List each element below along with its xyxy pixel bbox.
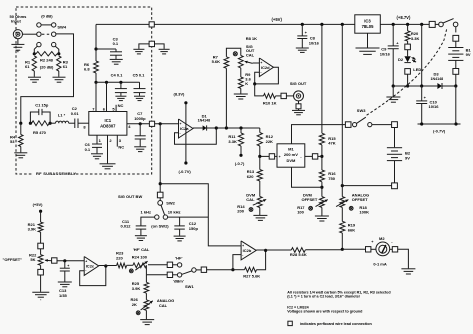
svg-text:C4 0.1: C4 0.1 [111, 72, 124, 77]
wire meter to ground [390, 247, 409, 269]
resistor R15 47K [319, 133, 336, 145]
svg-text:SIG OUT BW: SIG OUT BW [118, 194, 142, 199]
ground below meter return [401, 268, 415, 270]
svg-text:IC2b: IC2b [243, 248, 252, 253]
svg-text:(20 dB): (20 dB) [40, 65, 54, 70]
svg-text:1000p: 1000p [134, 116, 146, 121]
svg-text:10/16: 10/16 [309, 40, 320, 45]
capacitor C10 10/16 [416, 23, 439, 124]
wire R16 to R17, M1 minus junction [320, 182, 323, 197]
svg-text:53: 53 [10, 139, 15, 144]
svg-text:'HF': 'HF' [175, 256, 182, 261]
ground bus wire at +8.7V return [392, 84, 438, 87]
trimpot R26 2K ANALOG CAL [131, 293, 175, 314]
svg-text:SW2: SW2 [166, 201, 175, 206]
IC2a V+ stub (8.3V) [174, 92, 188, 138]
wire IC2c output [99, 265, 117, 267]
svg-text:0.01: 0.01 [71, 111, 80, 116]
svg-text:10 kHz: 10 kHz [168, 209, 181, 214]
battery B1 9V chain [453, 27, 459, 47]
svg-text:K: K [245, 81, 248, 86]
capacitor C13 1/35 [58, 261, 72, 298]
+5V branch to analog offset chain [341, 23, 344, 197]
svg-text:9V: 9V [466, 52, 471, 57]
resistor R4 50 [10, 123, 23, 146]
ground below R26 [140, 310, 154, 324]
svg-text:+: + [260, 61, 262, 65]
svg-text:SW1: SW1 [185, 284, 194, 289]
svg-text:CAL: CAL [246, 197, 255, 202]
svg-text:NC: NC [118, 103, 124, 108]
svg-text:+: + [242, 244, 244, 248]
svg-text:OFFSET: OFFSET [352, 197, 368, 202]
node main line after attenuator [19, 122, 22, 125]
ground below IC3 [356, 33, 380, 54]
switch SW1 [173, 256, 196, 290]
capacitor C12 150p [168, 217, 209, 241]
inductor L1 [50, 112, 69, 123]
svg-text:M1: M1 [288, 147, 294, 152]
IC1 supply bus wire [94, 81, 139, 84]
IC1 pin 7 wire [92, 82, 96, 111]
svg-text:+: + [279, 155, 281, 159]
mechanical linkage dashed line SW3 to power switch [367, 29, 447, 116]
capacitor C1 15p parallel branch [29, 103, 52, 125]
LED D2 [398, 50, 421, 72]
svg-text:47K: 47K [328, 141, 335, 146]
svg-text:5K: 5K [30, 257, 35, 262]
svg-text:IC2d: IC2d [261, 65, 270, 70]
meter M2 0-1 mA [371, 236, 393, 266]
perfboard square below LED [405, 69, 411, 75]
svg-text:0-1 mA: 0-1 mA [373, 261, 386, 266]
perfboard square above SW2 [157, 192, 163, 198]
svg-text:DVM: DVM [286, 158, 296, 163]
trimpot R14 200 DVM CAL [237, 181, 266, 213]
wire B1 to D3 node [453, 60, 459, 87]
wire SW4 row3 to attenuator [34, 46, 59, 52]
+5V supply rail [96, 17, 429, 24]
op-amp IC2b [241, 241, 256, 260]
wire input jack to SW4 [25, 33, 37, 35]
attenuator switch SW4 [37, 14, 67, 47]
ground below input jack [11, 39, 24, 52]
svg-text:R10 1K: R10 1K [263, 100, 277, 105]
capacitor C2 0.01 [69, 106, 89, 130]
DVM module M1 200 mV [277, 144, 305, 167]
svg-text:RF SUBASSEMBLY: RF SUBASSEMBLY [36, 171, 76, 176]
resistor R1 61 [25, 56, 37, 71]
op-amp IC2c offset buffer [84, 257, 99, 276]
diode D1 1N4148 [193, 113, 216, 130]
svg-text:"OFFSET": "OFFSET" [3, 257, 23, 262]
svg-text:+: + [67, 264, 69, 268]
svg-text:SW4: SW4 [57, 24, 66, 29]
resistor R3 61 [57, 56, 69, 71]
ground below R3 [53, 71, 66, 82]
svg-text:L1 *: L1 * [58, 112, 66, 117]
notes text block [287, 290, 391, 326]
svg-text:200: 200 [237, 208, 244, 213]
svg-text:IC2c: IC2c [86, 263, 95, 268]
ground below R1 [28, 71, 41, 82]
svg-text:3.3K: 3.3K [411, 36, 420, 41]
trimpot R17 100 DVM OFFSET [297, 192, 328, 214]
svg-text:R5 470: R5 470 [33, 130, 47, 135]
svg-text:200 mV: 200 mV [284, 152, 298, 157]
IC2a feedback loop wire [175, 128, 217, 144]
wire LED to ground bus [406, 74, 409, 87]
wire B2 negative to offset chain [341, 184, 392, 187]
svg-text:(-0.7V): (-0.7V) [179, 169, 192, 174]
potentiometer R22 5K OFFSET [3, 249, 52, 265]
svg-text:(-0.7V): (-0.7V) [433, 129, 446, 134]
battery B1 9V [448, 48, 471, 61]
resistor R23 220 [116, 251, 133, 268]
svg-text:2K: 2K [132, 302, 137, 307]
RF subassembly dashed enclosure [16, 7, 152, 177]
svg-text:D3: D3 [434, 72, 440, 77]
svg-text:indicates perfboard wire lead: indicates perfboard wire lead connection [300, 322, 372, 326]
svg-text:0.1: 0.1 [85, 147, 91, 152]
svg-text:0.012: 0.012 [121, 224, 132, 229]
svg-text:R8 1K: R8 1K [246, 36, 257, 41]
label (+5V) offset source [33, 202, 44, 213]
svg-text:SIG OUT: SIG OUT [290, 81, 307, 86]
svg-text:IC2 = LM324: IC2 = LM324 [287, 305, 309, 309]
resistor R13 620 [247, 156, 263, 181]
svg-text:100: 100 [297, 210, 304, 215]
op-amp log detector IC1 AD8307 [89, 112, 127, 136]
svg-text:R28 5.6K: R28 5.6K [290, 252, 307, 257]
power switch SW (on B1) [429, 19, 458, 28]
svg-text:3.9K: 3.9K [28, 227, 37, 232]
svg-text:3.3K: 3.3K [228, 139, 237, 144]
perfboard square above R22 [38, 243, 44, 249]
resistor R21 3.9K [28, 211, 43, 243]
svg-text:9V: 9V [405, 155, 410, 160]
ground below R4 [14, 147, 27, 158]
input jack J1 (50 Ohms Input) [10, 14, 28, 39]
wire signal node down to SW2 [118, 124, 162, 199]
svg-text:(8.3V): (8.3V) [174, 92, 186, 97]
trimpot R24 100 HF CAL [129, 247, 150, 273]
perfboard square below R22 [38, 269, 44, 275]
wire signal node to IC2b input [160, 184, 241, 246]
svg-text:All resistors 1/4 watt carbon: All resistors 1/4 watt carbon 5% except … [287, 290, 391, 294]
capacitor C3 0.1 [96, 36, 123, 64]
svg-text:1/35: 1/35 [59, 293, 68, 298]
svg-text:LED: LED [413, 67, 421, 72]
switch SW3 [345, 108, 372, 127]
svg-text:1 kHz: 1 kHz [141, 209, 151, 214]
op-amp IC2d sig out buffer [259, 58, 273, 77]
node R15/R16 to M1 [320, 145, 323, 170]
trimpot R18 100K ANALOG OFFSET [336, 192, 369, 214]
capacitor C7 1000p [134, 111, 146, 151]
svg-text:C1 15p: C1 15p [35, 103, 49, 108]
ground below R9 [234, 88, 248, 99]
voltage regulator IC3 78L05 [355, 15, 381, 33]
resistor R5 470 [32, 121, 50, 135]
capacitor C4 0.1 [111, 72, 127, 100]
potentiometer R8 1K SIG OUT CAL [233, 36, 257, 68]
svg-text:R24 100: R24 100 [132, 255, 148, 260]
svg-text:66K: 66K [348, 227, 355, 232]
ground below R17 [315, 207, 329, 221]
capacitor C11 0.012 [121, 217, 155, 240]
capacitor C5 0.1 [133, 72, 146, 100]
resistor R16 750 [319, 170, 336, 182]
resistor R11 3.3K [228, 128, 245, 166]
IC1 pin 3 NC stub [117, 135, 124, 149]
svg-text:22K: 22K [266, 139, 273, 144]
IC2b feedback and resistor R27 5.6K [231, 249, 267, 279]
svg-text:(0 dB): (0 dB) [41, 14, 53, 19]
svg-text:1N4148: 1N4148 [431, 77, 444, 81]
svg-text:+: + [85, 260, 87, 264]
svg-text:150p: 150p [189, 226, 199, 231]
op-amp IC2a [179, 119, 194, 138]
diode D3 1N4148 [431, 72, 456, 89]
perfboard square HF contact [167, 262, 172, 267]
chassis ground ties at RF box boundary [133, 41, 169, 54]
perfboard square SW1 pole wire [201, 267, 206, 272]
IC2d feedback loop wire [253, 67, 278, 85]
svg-text:750: 750 [328, 176, 335, 181]
svg-text:220: 220 [116, 255, 123, 260]
svg-text:CAL: CAL [159, 303, 168, 308]
perfboard square dBm contact [167, 272, 172, 277]
svg-text:SW3: SW3 [357, 108, 366, 113]
wire SW1 pole to IC2b minus node [196, 269, 233, 271]
wire M1 bottom pin [292, 167, 322, 187]
svg-text:IC3: IC3 [364, 18, 371, 23]
svg-text:(+8.7V): (+8.7V) [397, 15, 411, 20]
wire dBm contact [146, 274, 177, 276]
wire R24 to dBm contact and R25 [145, 265, 147, 275]
wire to IC2a input [155, 122, 179, 125]
resistor R28 5.6K [290, 248, 342, 257]
svg-text:IC1: IC1 [105, 118, 112, 123]
svg-text:R27 5.6K: R27 5.6K [243, 274, 260, 279]
resistor R2 248 (20 dB) [33, 52, 61, 70]
ground below R22 [32, 265, 49, 299]
svg-text:(L1 *) = 1 turn of a C2 lead,: (L1 *) = 1 turn of a C2 lead, 3/16" diam… [287, 295, 360, 299]
svg-text:61: 61 [25, 64, 30, 69]
IC1 pin 4 output wire [127, 124, 149, 129]
svg-text:OFFSET: OFFSET [302, 197, 318, 202]
perfboard square above LED [405, 44, 411, 50]
IC2a V- stub (-0.7V) [179, 138, 192, 174]
node meter drive [341, 248, 344, 251]
SIG OUT jack [286, 81, 307, 101]
svg-text:D2: D2 [398, 57, 404, 62]
resistor R25 3.9K [132, 275, 149, 293]
resistor R6 6.8 feed [84, 24, 98, 82]
wire M1 plus input [260, 154, 277, 159]
svg-text:C5 0.1: C5 0.1 [133, 72, 146, 77]
svg-text:+: + [180, 122, 182, 126]
perfboard square before SIG OUT jack [281, 93, 286, 98]
resistor R12 22K [257, 128, 274, 158]
wire HF contact [148, 264, 177, 266]
IC1 pin 1 and capacitor C6 0.1 [85, 135, 103, 159]
wire R22 wiper to IC2c input [57, 259, 84, 262]
svg-text:100K: 100K [359, 210, 369, 215]
IC1 pin 6 wire [103, 82, 107, 111]
wire D1 output node [215, 126, 260, 129]
wire SW3 to B2 [372, 124, 392, 126]
wire M1 power riser [292, 125, 346, 144]
ground symbol on bus [386, 86, 400, 102]
capacitor C9 10/16 [380, 23, 399, 86]
svg-text:10/16: 10/16 [380, 51, 391, 56]
switch SW2 [141, 198, 181, 229]
svg-text:6.8: 6.8 [84, 67, 90, 72]
svg-text:'dBm': 'dBm' [173, 278, 184, 283]
resistor R20 3.3K [405, 23, 419, 44]
svg-text:CAL: CAL [246, 52, 255, 57]
svg-text:NC: NC [118, 145, 124, 150]
+5V branch to divider R15 [320, 23, 323, 133]
svg-text:Input: Input [11, 19, 21, 24]
svg-text:0.1: 0.1 [113, 41, 119, 46]
resistor R9 3.6K [238, 68, 251, 89]
resistor R19 66K [340, 207, 356, 249]
perfboard square on R22 wiper [52, 258, 57, 263]
wire R8 wiper to IC2d input [253, 62, 260, 64]
wire IC2b output [256, 249, 291, 251]
ground below R14 [253, 208, 267, 221]
battery B2 9V [387, 122, 411, 189]
svg-text:(+5V): (+5V) [33, 202, 44, 207]
perfboard square on rail at RF box boundary [149, 22, 154, 27]
svg-text:620: 620 [247, 174, 254, 179]
svg-text:(+5V): (+5V) [272, 17, 283, 22]
ground below SIG OUT jack [292, 101, 305, 115]
wire R7 top to R8 top [226, 48, 240, 57]
IC1 pin 5 NC stub [112, 103, 123, 111]
svg-text:78L05: 78L05 [362, 24, 375, 29]
svg-text:(on SW2): (on SW2) [151, 224, 169, 229]
svg-text:R2 248: R2 248 [40, 57, 54, 62]
wire to meter M2 [342, 247, 376, 252]
negative supply wire (-0.7V) [418, 86, 461, 134]
perfboard square on IC1 output wire [149, 121, 154, 126]
svg-text:'HF' CAL: 'HF' CAL [133, 247, 150, 252]
svg-text:M2: M2 [379, 236, 385, 241]
capacitor C8 10/16 on +5V rail [296, 23, 320, 53]
svg-text:61: 61 [63, 64, 68, 69]
svg-text:IC2a: IC2a [180, 126, 189, 131]
svg-text:10/16: 10/16 [429, 104, 440, 109]
IC1 pin 2 ground [100, 135, 116, 169]
svg-text:5.6K: 5.6K [212, 59, 221, 64]
resistor R7 5.6K [212, 54, 229, 128]
IC2c feedback loop wire [80, 264, 108, 285]
wire M1 minus to divider [305, 154, 322, 159]
wire SW4 right pole to RF chain input [21, 34, 74, 123]
svg-text:AD8307: AD8307 [100, 124, 116, 129]
svg-text:(-0.7): (-0.7) [235, 161, 245, 166]
svg-text:Voltages shown are with respec: Voltages shown are with respect to groun… [287, 310, 363, 314]
resistor R10 1K [255, 84, 281, 106]
svg-text:3.9K: 3.9K [132, 286, 141, 291]
svg-text:1N4148: 1N4148 [198, 118, 211, 122]
